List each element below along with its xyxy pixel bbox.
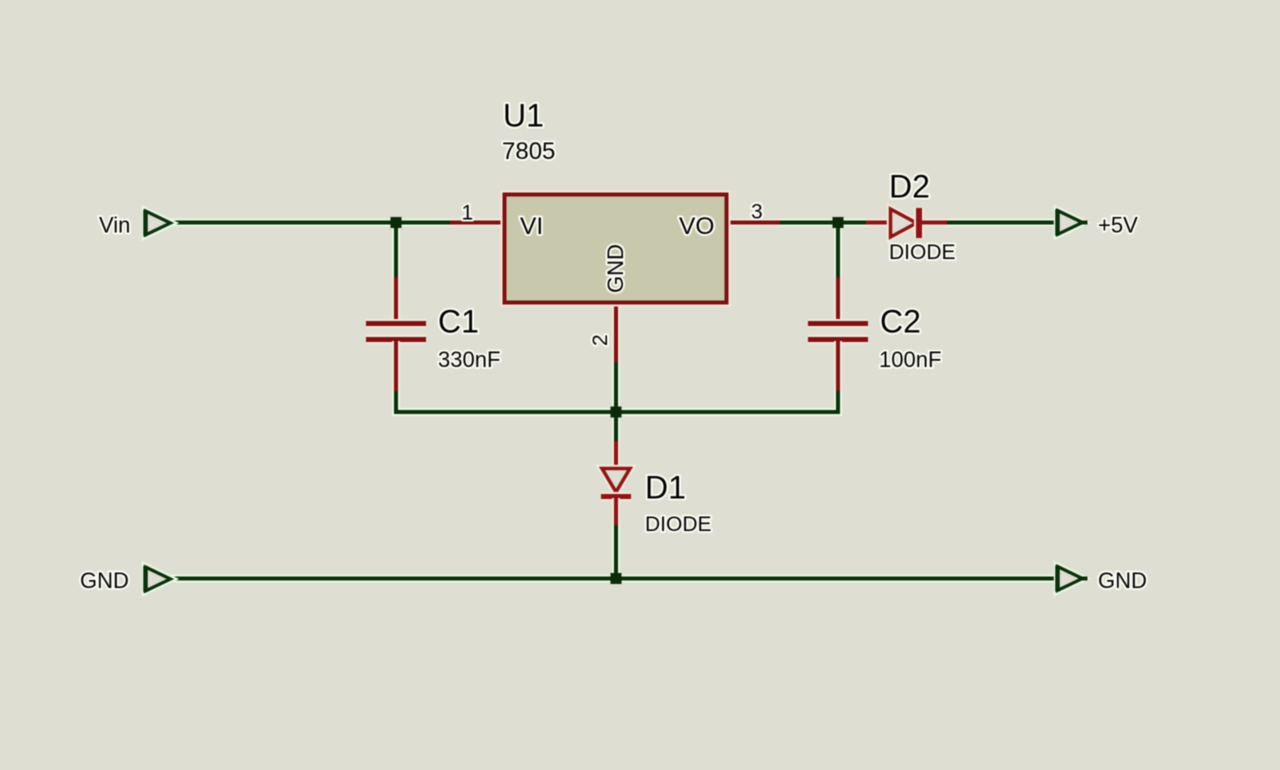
pin 2 stub of U1: [612, 302, 620, 362]
value 100nF: [879, 347, 941, 372]
junction node middle rail/D1: [611, 407, 622, 418]
svg-text:U1: U1: [503, 98, 544, 134]
svg-text:VI: VI: [520, 213, 543, 240]
pin 3 stub of U1: [726, 219, 780, 227]
wire pin2 to middle rail: [612, 361, 620, 412]
op-amp / regulator U1 body (7805 box): [505, 195, 727, 303]
label C2: [880, 304, 921, 340]
svg-text:D1: D1: [645, 470, 686, 506]
label D1: [645, 470, 686, 506]
svg-text:C1: C1: [438, 304, 479, 340]
pin number 3: [751, 201, 763, 224]
svg-text:DIODE: DIODE: [889, 241, 956, 264]
svg-text:2: 2: [589, 334, 612, 346]
svg-text:GND: GND: [80, 568, 129, 593]
wire C1 bottom to ground rail corner: [396, 389, 616, 412]
svg-text:1: 1: [462, 202, 474, 225]
diode D2 (horizontal, cathode right): [866, 208, 947, 238]
wire Vin to pin1 (input net): [170, 219, 452, 227]
capacitor C1: [366, 277, 426, 391]
svg-text:D2: D2: [889, 169, 930, 205]
junction node output/C2: [833, 217, 844, 228]
label GND right: [1098, 568, 1147, 593]
pin number 2 (rotated): [589, 334, 612, 346]
wire pin3 to D2 anode: [779, 219, 867, 227]
wire junction to C1 top: [392, 222, 400, 279]
value DIODE (D2): [889, 241, 956, 264]
terminal +5V (output arrow): [1058, 210, 1088, 236]
terminal Vin (input arrow): [146, 210, 171, 236]
label C1: [438, 304, 479, 340]
value DIODE (D1): [645, 513, 712, 536]
svg-text:7805: 7805: [502, 138, 555, 165]
wire ground rail GND to GND: [170, 575, 1057, 583]
wire C2 top to output junction: [834, 222, 842, 279]
terminal GND right: [1058, 566, 1088, 592]
label +5V: [1098, 213, 1138, 238]
wire D1 cathode to ground rail: [612, 524, 620, 578]
svg-text:+5V: +5V: [1098, 213, 1138, 238]
svg-text:GND: GND: [1098, 568, 1147, 593]
wire D2 cathode to +5V terminal: [946, 219, 1057, 227]
label D2: [889, 169, 930, 205]
terminal GND left: [146, 566, 171, 592]
svg-text:100nF: 100nF: [879, 347, 941, 372]
svg-text:DIODE: DIODE: [645, 513, 712, 536]
svg-text:Vin: Vin: [99, 213, 130, 238]
junction node input/C1: [391, 217, 402, 228]
svg-text:3: 3: [751, 201, 763, 224]
diode D1 (vertical, cathode down): [601, 441, 631, 525]
label Vin: [99, 213, 130, 238]
capacitor C2: [808, 277, 868, 391]
pin name VO: [679, 213, 714, 240]
pin name GND (rotated, inside box): [603, 244, 628, 293]
value 7805: [502, 138, 555, 165]
svg-text:330nF: 330nF: [438, 347, 500, 372]
svg-text:VO: VO: [679, 213, 714, 240]
svg-text:GND: GND: [603, 244, 628, 293]
pin name VI: [520, 213, 543, 240]
svg-text:C2: C2: [880, 304, 921, 340]
pin 1 stub of U1: [450, 219, 504, 227]
wire middle rail to D1 anode: [612, 412, 620, 442]
value 330nF: [438, 347, 500, 372]
wire middle rail junction to C2 bottom corner: [616, 389, 838, 412]
label GND left: [80, 568, 129, 593]
junction node ground rail/D1: [611, 573, 622, 584]
label U1: [503, 98, 544, 134]
pin number 1: [462, 202, 474, 225]
